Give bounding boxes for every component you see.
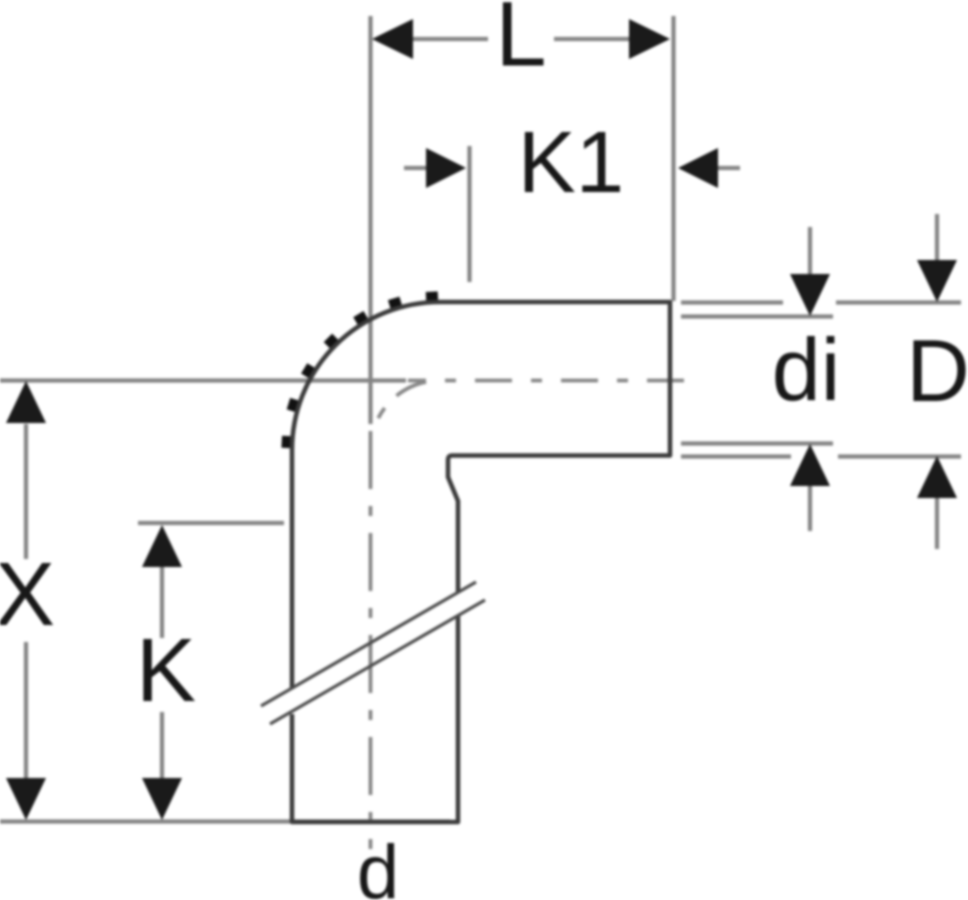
svg-text:D: D — [906, 321, 968, 420]
extension line: di bottom (inner diameter) — [681, 441, 833, 445]
arrowhead K1 right (outside, pointing left) with tail — [716, 166, 740, 170]
knurl dot 1 on outer bend — [426, 291, 438, 300]
extension line: L left (vertical at pipe axis) — [368, 16, 372, 424]
knurl dot 5 on outer bend — [301, 363, 314, 378]
arrowhead K1 left (outside, pointing right) with tail — [404, 166, 428, 170]
extension line: X top (horizontal pipe axis, to left edge) — [0, 378, 406, 382]
centerline: horizontal pipe axis (dash-dot) — [408, 379, 684, 383]
knurl dot 6 on outer bend — [287, 398, 299, 412]
centerline: bend axis arc (dash-dot) — [371, 381, 441, 451]
arrowhead D top (pointing down onto outer edge) with tail — [935, 214, 939, 262]
knurl dot 4 on outer bend — [324, 334, 338, 348]
centerline: vertical pipe axis (dash-dot) — [369, 431, 373, 849]
arrowhead L right — [629, 19, 670, 59]
extension line: L/K1 right (at pipe end) — [671, 16, 675, 301]
arrowhead D bottom (pointing up onto outer edge) with tail — [935, 498, 939, 549]
arrowhead X top (pointing up) — [6, 381, 46, 423]
dimension line K with text gap — [160, 567, 164, 778]
svg-text:L: L — [495, 0, 546, 86]
arrowhead K top (pointing up) — [142, 525, 182, 567]
pipe break symbol: lower diagonal — [270, 600, 485, 724]
svg-text:d: d — [357, 830, 399, 900]
pipe elbow outer contour (90° elbow, horizontal run right, vertical run down) — [292, 302, 670, 822]
dimension line L with text gap — [412, 37, 630, 41]
extension line: D bottom (outer diameter, with gap at di arrow) — [681, 454, 961, 458]
extension line: di top (inner diameter) — [681, 314, 833, 318]
knurl dot 3 on outer bend — [353, 311, 368, 324]
arrowhead X bottom (pointing down) — [6, 778, 46, 820]
dimension line X with text gap — [24, 424, 28, 778]
extension line: D top (outer diameter, with gap at di arrow) — [681, 300, 961, 304]
extension line: K1 left (socket depth plane) — [467, 146, 471, 282]
arrowhead di top (pointing down onto inner edge) with tail — [808, 227, 812, 276]
knurl dot 7 on outer bend — [281, 436, 290, 448]
arrowhead di bottom (pointing up onto inner edge) with tail — [808, 486, 812, 531]
svg-text:K1: K1 — [518, 114, 624, 211]
extension line: X/K bottom (pipe bottom end) — [0, 819, 450, 823]
arrowhead L left — [372, 19, 413, 59]
extension line: K top (socket depth of vertical leg) — [138, 521, 284, 525]
svg-text:di: di — [772, 320, 841, 419]
arrowhead K bottom (pointing down) — [142, 778, 182, 820]
svg-text:K: K — [136, 621, 196, 721]
pipe break symbol: upper diagonal — [261, 582, 476, 706]
svg-text:X: X — [0, 545, 55, 645]
knurl dot 2 on outer bend — [388, 297, 402, 309]
